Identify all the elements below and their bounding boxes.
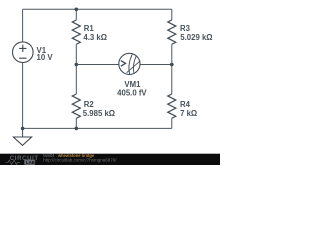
node meter left [75,63,79,67]
node meter right [170,63,174,67]
resistor R2 [72,94,80,118]
voltage source V1 [12,42,33,63]
footer bar [0,154,220,165]
logo zigzag [6,160,21,164]
resistor R4 [168,94,176,118]
svg-text:LAB: LAB [26,160,35,165]
ground [13,128,31,145]
svg-text:R3: R3 [180,24,191,33]
wire meter left [76,64,118,66]
svg-text:http://circuitlab.com/c/7hsmgn: http://circuitlab.com/c/7hsmgna6876/ [43,157,117,162]
resistor R3 [168,20,176,44]
svg-text:R2: R2 [84,100,95,109]
svg-text:10 V: 10 V [37,53,54,62]
logo text LAB [24,160,35,165]
svg-text:5.985 kΩ: 5.985 kΩ [83,109,115,118]
wire bottom rail [23,127,172,129]
wire top rail [23,8,172,10]
svg-text:R1: R1 [84,24,95,33]
node top middle [75,8,79,12]
wire left branch upper [22,9,24,42]
voltmeter VM1 [119,53,141,74]
wire meter right [140,64,172,66]
wire middle branch [75,9,77,128]
node bottom middle [75,127,79,131]
wire left branch lower [22,62,24,128]
wire right branch [171,9,173,128]
svg-text:405.0 fV: 405.0 fV [117,88,147,97]
svg-text:5.029 kΩ: 5.029 kΩ [180,33,212,42]
svg-text:R4: R4 [180,100,191,109]
node ground tap [21,127,25,131]
svg-text:7 kΩ: 7 kΩ [180,109,197,118]
resistor R1 [72,20,80,44]
svg-text:4.3 kΩ: 4.3 kΩ [83,33,107,42]
